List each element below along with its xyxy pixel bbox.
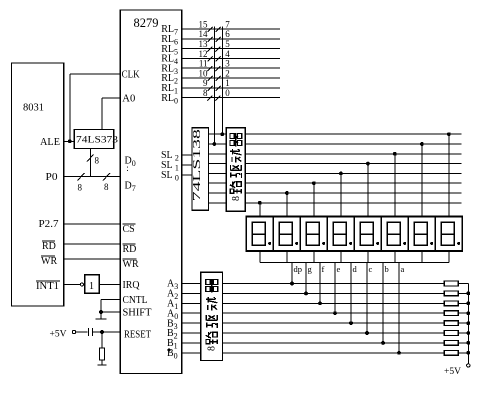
IC U5 74LS138 decoder box bbox=[192, 128, 209, 210]
svg-text:WR: WR bbox=[123, 259, 139, 270]
segment label f bbox=[322, 264, 325, 274]
svg-text:+5V: +5V bbox=[444, 366, 462, 376]
wire capacitor to RESET bbox=[93, 331, 121, 333]
junction dot key column 1 to scan line 2 bbox=[212, 142, 216, 146]
terminal circle +5V left bbox=[72, 330, 75, 333]
wire digit 5 column down to display bbox=[367, 164, 369, 217]
wire key column 2 bbox=[221, 27, 223, 135]
wire 8279 A1 to segment driver bbox=[182, 302, 201, 304]
svg-text:3: 3 bbox=[225, 59, 230, 69]
8279 pin label A0 bbox=[167, 308, 178, 321]
wire segment dp from bracket to driver line bbox=[291, 263, 293, 284]
key switch S5 (code 5) bbox=[216, 47, 221, 52]
wire segment bus line 1 bbox=[223, 283, 445, 285]
key switch S9 (code 9) bbox=[208, 86, 213, 91]
key switch S1 (code 1) bbox=[216, 86, 221, 91]
wire segment bus line 5 bbox=[223, 322, 445, 324]
8031 pin label RD (active low) bbox=[42, 241, 56, 252]
junction dot segment f bbox=[318, 301, 322, 305]
wire digit drive line 7 bbox=[245, 192, 461, 194]
wire key row RL0 bbox=[182, 97, 280, 99]
svg-text:CLK: CLK bbox=[122, 69, 141, 80]
8031 pin label P2.7 bbox=[39, 219, 59, 230]
wire digit drive line 4 bbox=[245, 163, 461, 165]
key switch S15 (code 15) bbox=[208, 27, 213, 32]
key code label 6 bbox=[225, 29, 230, 39]
key switch S3 (code 3) bbox=[216, 66, 221, 71]
key switch S12 (code 12) bbox=[208, 56, 213, 61]
wire segment bus line 7 bbox=[223, 342, 445, 344]
wire 74LS373 output bus to P0 line bbox=[90, 149, 92, 177]
wire P2.7 to CS bbox=[64, 223, 120, 225]
junction dot digit 7 column bbox=[420, 142, 424, 146]
junction dot segment g bbox=[304, 292, 308, 296]
wire segment bus line 2 bbox=[223, 292, 445, 294]
svg-text:P2.7: P2.7 bbox=[39, 219, 59, 230]
bus width slash 8 on 74LS373 output bbox=[87, 155, 100, 166]
7-segment display digit 3 bbox=[300, 217, 327, 252]
wire digit 7 segment stub down to bus bracket bbox=[421, 251, 423, 263]
resistor R3 pull-up bbox=[444, 301, 458, 306]
svg-text:A0: A0 bbox=[122, 93, 135, 104]
8279 pin label A0 bbox=[122, 93, 135, 104]
wire inverter output to IRQ bbox=[99, 284, 120, 286]
key code label 11 bbox=[199, 59, 208, 69]
8279 pin label CS (active low) bbox=[123, 224, 136, 235]
svg-text:c: c bbox=[369, 264, 373, 274]
junction dot digit 2 column bbox=[285, 191, 289, 195]
wire key row RL5 bbox=[182, 48, 280, 50]
7-segment display digit 7 bbox=[408, 217, 435, 252]
wire key row RL6 bbox=[182, 38, 280, 40]
svg-text:a: a bbox=[401, 264, 405, 274]
terminal circle +5V right bbox=[467, 364, 470, 367]
junction dot rail line 6 bbox=[466, 331, 470, 335]
wire segment g from bracket to driver line bbox=[305, 263, 307, 294]
svg-text:RD: RD bbox=[42, 241, 56, 252]
wire 74LS138 output 0 to display driver bbox=[209, 133, 227, 135]
8279 pin label RL6 bbox=[161, 34, 178, 47]
junction dot segment c bbox=[365, 331, 369, 335]
svg-text:74LS138: 74LS138 bbox=[192, 129, 203, 201]
key switch S13 (code 13) bbox=[208, 47, 213, 52]
wire digit 8 segment stub down to bus bracket bbox=[448, 251, 450, 263]
key switch S11 (code 11) bbox=[208, 66, 213, 71]
key code label 2 bbox=[225, 68, 230, 78]
8279 pin label SL2 bbox=[161, 150, 179, 163]
wire segment bus line 6 bbox=[223, 332, 445, 334]
7-segment display digit 5 bbox=[354, 217, 381, 252]
key code label 8 bbox=[203, 88, 208, 98]
wire key row RL7 bbox=[182, 28, 280, 30]
8279 pin label B2 bbox=[167, 328, 178, 341]
junction dot digit 4 column bbox=[339, 172, 343, 176]
wire resistor R1 to +5V rail bbox=[458, 283, 468, 285]
svg-text:9: 9 bbox=[203, 78, 208, 88]
svg-text:1: 1 bbox=[225, 78, 230, 88]
7-segment display digit 6 bbox=[381, 217, 408, 252]
wire +5V to capacitor C1 bbox=[76, 331, 88, 333]
wire digit 3 segment stub down to bus bracket bbox=[313, 251, 315, 263]
8031 pin label ALE bbox=[40, 137, 60, 148]
stray junction dot near B1 label bbox=[168, 349, 171, 352]
svg-text:b: b bbox=[385, 264, 389, 274]
wire segment c from bracket to driver line bbox=[366, 263, 368, 334]
segment bus bracket line under displays bbox=[260, 262, 449, 264]
junction dot on RESET wire bbox=[100, 330, 104, 334]
resistor R6 pull-up bbox=[444, 331, 458, 336]
8279 pin label RL0 bbox=[161, 93, 178, 106]
inverter U4 bubble bbox=[80, 283, 83, 286]
wire SL0 to 74LS138 bbox=[182, 174, 192, 176]
wire digit drive line 1 bbox=[245, 133, 461, 135]
segment label c bbox=[369, 264, 373, 274]
svg-text:8279: 8279 bbox=[134, 15, 159, 30]
svg-text:13: 13 bbox=[199, 39, 209, 49]
svg-text:12: 12 bbox=[199, 49, 208, 59]
svg-text:8: 8 bbox=[231, 196, 242, 201]
wire 8279 B1 to segment driver bbox=[182, 342, 201, 344]
key switch S2 (code 2) bbox=[216, 76, 221, 81]
key code label 13 bbox=[199, 39, 209, 49]
8279 pin label RL3 bbox=[161, 63, 178, 76]
segment label d bbox=[353, 264, 358, 274]
svg-text:11: 11 bbox=[199, 59, 208, 69]
key code label 14 bbox=[199, 29, 209, 39]
wire resistor R3 to +5V rail bbox=[458, 302, 468, 304]
junction dot rail line 2 bbox=[466, 292, 470, 296]
key code label 10 bbox=[199, 68, 209, 78]
svg-text:1: 1 bbox=[89, 281, 94, 292]
resistor R1 pull-up bbox=[444, 281, 458, 286]
key switch S10 (code 10) bbox=[208, 76, 213, 81]
junction dot digit 6 column bbox=[393, 152, 397, 156]
svg-text:10: 10 bbox=[199, 68, 209, 78]
junction dot segment b bbox=[381, 341, 385, 345]
wire resistor R6 to +5V rail bbox=[458, 332, 468, 334]
junction dot digit 8 column bbox=[447, 132, 451, 136]
8279 pin label CLK bbox=[122, 69, 141, 80]
8279 pin label SL1 bbox=[161, 160, 179, 173]
svg-text:8: 8 bbox=[203, 88, 208, 98]
segment label e bbox=[337, 264, 341, 274]
8031 pin label INT1 (active low) bbox=[36, 281, 60, 292]
svg-text:RESET: RESET bbox=[124, 330, 151, 341]
junction dot rail line 8 bbox=[466, 351, 470, 355]
inverter U4 gate box bbox=[85, 275, 100, 294]
wire segment bus line 3 bbox=[223, 302, 445, 304]
resistor R2 pull-up bbox=[444, 291, 458, 296]
wire resistor R9 to ground bbox=[101, 360, 103, 365]
key switch S8 (code 8) bbox=[208, 96, 213, 101]
wire segment bus line 4 bbox=[223, 312, 445, 314]
wire digit drive line 5 bbox=[245, 172, 461, 174]
svg-text:dp: dp bbox=[294, 264, 303, 274]
svg-text:6: 6 bbox=[225, 29, 230, 39]
key code label 7 bbox=[225, 19, 230, 29]
junction dot digit 3 column bbox=[312, 181, 316, 185]
wire 8279 A3 to segment driver bbox=[182, 283, 201, 285]
7-segment display digit 2 bbox=[273, 217, 300, 252]
wire key row RL1 bbox=[182, 87, 280, 89]
wire CNTL bbox=[101, 299, 120, 318]
ground bar under R9 bbox=[98, 364, 107, 366]
capacitor C1 plates bbox=[89, 328, 93, 336]
wire digit 5 segment stub down to bus bracket bbox=[367, 251, 369, 263]
wire CLK into 8279 bbox=[70, 73, 120, 75]
8279 pin label B1 bbox=[167, 338, 178, 351]
wire key row RL3 bbox=[182, 67, 280, 69]
wire WR to WR bbox=[64, 258, 120, 260]
wire digit 7 column down to display bbox=[421, 144, 423, 217]
svg-text:0: 0 bbox=[225, 88, 230, 98]
resistor R4 pull-up bbox=[444, 311, 458, 316]
7-segment display digit 4 bbox=[327, 217, 354, 252]
junction dot on ALE wire bbox=[68, 139, 72, 143]
wire 74LS138 output 6 to display driver bbox=[209, 192, 227, 194]
svg-text:IRQ: IRQ bbox=[123, 280, 141, 291]
resistor R8 pull-up bbox=[444, 350, 458, 355]
wire digit 2 segment stub down to bus bracket bbox=[286, 251, 288, 263]
segment label a bbox=[401, 264, 405, 274]
key code label 1 bbox=[225, 78, 230, 88]
svg-text:INT1: INT1 bbox=[36, 281, 59, 292]
8279 pin label B0 bbox=[167, 348, 178, 361]
8031 pin label P0 bbox=[46, 172, 58, 183]
svg-text:8: 8 bbox=[95, 156, 100, 166]
key code label 0 bbox=[225, 88, 230, 98]
junction dot segment dp bbox=[290, 282, 294, 286]
8279 pin label RL7 bbox=[161, 24, 178, 37]
wire digit drive line 2 bbox=[245, 143, 461, 145]
svg-text:15: 15 bbox=[199, 19, 209, 29]
wire digit 3 column down to display bbox=[313, 183, 315, 216]
junction dot segment e bbox=[333, 311, 337, 315]
key code label 3 bbox=[225, 59, 230, 69]
svg-text:14: 14 bbox=[199, 29, 209, 39]
svg-text:4: 4 bbox=[225, 49, 230, 59]
wire ALE from 8031 to 74LS373 bbox=[64, 140, 74, 142]
8279 pin label RL1 bbox=[161, 83, 178, 96]
wire resistor R7 to +5V rail bbox=[458, 342, 468, 344]
svg-text:74LS373: 74LS373 bbox=[76, 136, 118, 146]
wire 8279 B2 to segment driver bbox=[182, 332, 201, 334]
bus width slash 8 on P0 right segment bbox=[103, 173, 110, 192]
key switch S6 (code 6) bbox=[216, 37, 221, 42]
svg-text:CNTL: CNTL bbox=[123, 295, 148, 306]
junction dot rail line 4 bbox=[466, 311, 470, 315]
resistor R7 pull-up bbox=[444, 341, 458, 346]
IC U1 8031 microcontroller box bbox=[12, 63, 64, 306]
svg-text:ALE: ALE bbox=[40, 137, 60, 148]
wire digit drive line 3 bbox=[245, 153, 461, 155]
8279 pin label D7 bbox=[125, 181, 136, 194]
segment label g bbox=[308, 264, 313, 274]
key switch S0 (code 0) bbox=[216, 96, 221, 101]
wire digit 8 column down to display bbox=[448, 134, 450, 216]
svg-text:RD: RD bbox=[123, 244, 137, 255]
svg-text:5: 5 bbox=[225, 39, 230, 49]
svg-text:CS: CS bbox=[123, 224, 135, 235]
ground bar for CNTL/SHIFT bbox=[96, 318, 107, 320]
wire key row RL4 bbox=[182, 57, 280, 59]
wire digit 6 segment stub down to bus bracket bbox=[394, 251, 396, 263]
wire segment e from bracket to driver line bbox=[334, 263, 336, 314]
wire segment b from bracket to driver line bbox=[382, 263, 384, 343]
wire resistor R4 to +5V rail bbox=[458, 312, 468, 314]
wire 74LS138 output 2 to display driver bbox=[209, 153, 227, 155]
segment label b bbox=[385, 264, 389, 274]
svg-text:2: 2 bbox=[225, 68, 230, 78]
wire 8279 A0 to segment driver bbox=[182, 312, 201, 314]
wire RD to RD bbox=[64, 243, 120, 245]
bus width slash 8 on P0 left segment bbox=[78, 173, 85, 193]
svg-text:8: 8 bbox=[104, 182, 109, 192]
wire digit 4 column down to display bbox=[340, 173, 342, 216]
key code label 4 bbox=[225, 49, 230, 59]
wire P0 data bus 8031 to 8279 bbox=[64, 175, 120, 177]
wire SHIFT bbox=[101, 311, 120, 313]
7-segment display digit 1 bbox=[246, 217, 273, 252]
wire 74LS138 output 7 to display driver bbox=[209, 202, 227, 204]
wire +5V rail vertical bbox=[467, 284, 469, 364]
7-segment display digit 8 bbox=[435, 217, 462, 252]
wire digit 2 column down to display bbox=[286, 193, 288, 217]
svg-text:8: 8 bbox=[78, 183, 83, 193]
segment label dp bbox=[294, 264, 303, 274]
wire 8279 B0 to segment driver bbox=[182, 352, 201, 354]
junction dot segment a bbox=[397, 351, 401, 355]
key code label 12 bbox=[199, 49, 208, 59]
label +5V left supply bbox=[50, 328, 68, 338]
key code label 9 bbox=[203, 78, 208, 88]
svg-text:P0: P0 bbox=[46, 172, 58, 183]
wire digit 6 column down to display bbox=[394, 154, 396, 217]
key switch S7 (code 7) bbox=[216, 27, 221, 32]
8279 pin label CNTL bbox=[123, 295, 148, 306]
resistor R9 pull-down bbox=[100, 348, 105, 360]
svg-text:WR: WR bbox=[41, 256, 57, 267]
8279 pin label WR (active low) bbox=[123, 259, 139, 270]
8279 pin label B3 bbox=[167, 318, 178, 331]
wire ALE up to CLK bbox=[69, 74, 71, 141]
8279 pin label D0 bbox=[125, 156, 136, 169]
8279 pin label ellipsis D0..D7 bbox=[126, 163, 129, 173]
wire segment bus line 8 bbox=[223, 352, 445, 354]
8279 pin label SL0 bbox=[161, 170, 179, 183]
8279 pin label RESET bbox=[124, 330, 151, 341]
svg-text:8: 8 bbox=[207, 346, 218, 351]
IC U7 segment driver box (8-way driver) bbox=[201, 272, 223, 360]
wire 74LS138 output 5 to display driver bbox=[209, 182, 227, 184]
IC U3 74LS373 address latch box bbox=[74, 130, 118, 149]
junction dot digit 1 column bbox=[258, 201, 262, 205]
junction dot rail line 3 bbox=[466, 301, 470, 305]
8279 pin label SHIFT bbox=[123, 308, 152, 319]
wire digit 1 column down to display bbox=[259, 203, 261, 217]
resistor R5 pull-up bbox=[444, 321, 458, 326]
wire INT1 to inverter input bbox=[64, 284, 80, 286]
wire resistor R8 to +5V rail bbox=[458, 352, 468, 354]
svg-text:SHIFT: SHIFT bbox=[123, 308, 152, 319]
8279 pin label RL5 bbox=[161, 44, 178, 57]
svg-text:f: f bbox=[322, 264, 325, 274]
svg-text:e: e bbox=[337, 264, 341, 274]
8279 pin label A2 bbox=[167, 289, 178, 302]
wire 8279 B3 to segment driver bbox=[182, 322, 201, 324]
svg-text::: : bbox=[126, 163, 129, 173]
svg-text:8031: 8031 bbox=[23, 102, 44, 114]
wire segment f from bracket to driver line bbox=[319, 263, 321, 304]
key code label 5 bbox=[225, 39, 230, 49]
wire 74LS138 output 1 to display driver bbox=[209, 143, 227, 145]
svg-text:+5V: +5V bbox=[50, 328, 68, 338]
8279 pin label RL4 bbox=[161, 54, 178, 67]
8279 pin label A3 bbox=[167, 279, 178, 292]
junction dot rail line 5 bbox=[466, 321, 470, 325]
wire segment a from bracket to driver line bbox=[398, 263, 400, 353]
8279 pin label RL2 bbox=[161, 73, 178, 86]
wire 74LS138 output 3 to display driver bbox=[209, 163, 227, 165]
wire digit drive line 8 bbox=[245, 202, 461, 204]
8279 pin label IRQ bbox=[123, 280, 141, 291]
wire key column 1 bbox=[213, 27, 215, 145]
key switch S14 (code 14) bbox=[208, 37, 213, 42]
junction dot digit 5 column bbox=[366, 162, 370, 166]
key code label 15 bbox=[199, 19, 209, 29]
junction dot key column 2 to scan line 1 bbox=[220, 132, 224, 136]
8279 pin label A1 bbox=[167, 299, 178, 312]
wire SL1 to 74LS138 bbox=[182, 164, 192, 166]
svg-text:7: 7 bbox=[225, 19, 230, 29]
wire A0 from 74LS373 top to 8279 bbox=[102, 98, 120, 130]
8031 pin label WR (active low) bbox=[41, 256, 57, 267]
wire RESET junction down to resistor R9 bbox=[101, 332, 103, 348]
wire 8279 A2 to segment driver bbox=[182, 292, 201, 294]
label +5V right supply bbox=[444, 366, 462, 376]
wire key row RL2 bbox=[182, 77, 280, 79]
8279 pin label RD (active low) bbox=[123, 244, 137, 255]
wire resistor R5 to +5V rail bbox=[458, 322, 468, 324]
IC U2 8279 keyboard/display controller box bbox=[120, 10, 182, 374]
wire SL2 to 74LS138 bbox=[182, 154, 192, 156]
wire digit drive line 6 bbox=[245, 182, 461, 184]
junction dot segment d bbox=[349, 321, 353, 325]
wire resistor R2 to +5V rail bbox=[458, 292, 468, 294]
wire digit 1 segment stub down to bus bracket bbox=[259, 251, 261, 263]
junction dot CNTL/SHIFT bbox=[99, 310, 103, 314]
wire digit 4 segment stub down to bus bracket bbox=[340, 251, 342, 263]
junction dot rail line 7 bbox=[466, 341, 470, 345]
IC U6 display digit driver box (8-way driver) bbox=[226, 128, 245, 211]
wire segment d from bracket to driver line bbox=[350, 263, 352, 324]
wire 74LS138 output 4 to display driver bbox=[209, 172, 227, 174]
key switch S4 (code 4) bbox=[216, 56, 221, 61]
